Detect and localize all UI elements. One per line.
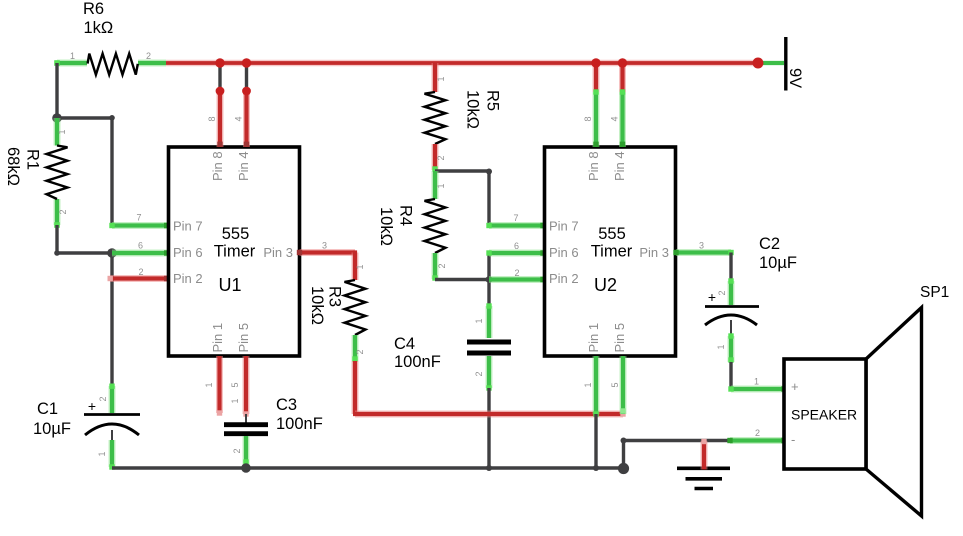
svg-text:SP1: SP1 <box>920 284 949 301</box>
resistor R3 10k <box>308 280 366 362</box>
svg-text:1: 1 <box>204 382 214 387</box>
svg-text:R3: R3 <box>326 286 344 307</box>
svg-text:1: 1 <box>70 51 75 61</box>
svg-text:C2: C2 <box>759 235 780 253</box>
wire: pin6 node vertical <box>487 253 490 280</box>
op IC U1 555 <box>169 147 300 356</box>
wire: ground rail up and right to speaker minus <box>621 438 731 469</box>
wire: C4 down to ground rail <box>487 388 490 468</box>
wire: R6 pin1 down to node <box>55 63 58 118</box>
svg-text:1: 1 <box>97 451 107 456</box>
wire: U2 pin6 green <box>486 241 545 256</box>
wire: U2 pin2 green <box>489 268 546 282</box>
svg-text:Timer: Timer <box>214 243 256 261</box>
bend dot <box>486 169 492 175</box>
svg-text:8: 8 <box>207 116 217 121</box>
svg-text:4: 4 <box>610 116 620 121</box>
bend dot <box>54 250 60 256</box>
wire: U2 pin1 to ground rail <box>583 356 599 471</box>
svg-text:100nF: 100nF <box>276 415 323 433</box>
capacitor C4 100nF <box>394 303 511 390</box>
capacitor C3 100nF <box>224 396 323 465</box>
op IC U2 555 <box>545 147 676 356</box>
wire: rail to U1 pin4 <box>234 58 252 147</box>
svg-text:1: 1 <box>436 183 446 188</box>
svg-text:Pin 3: Pin 3 <box>263 245 293 260</box>
svg-text:C4: C4 <box>394 335 415 353</box>
svg-text:R6: R6 <box>83 0 104 18</box>
svg-text:Pin 5: Pin 5 <box>236 323 251 353</box>
svg-text:Pin 2: Pin 2 <box>549 271 579 286</box>
battery 9V <box>762 37 804 91</box>
wire: U1 pin1 red stub <box>204 356 222 416</box>
svg-text:1: 1 <box>355 264 365 269</box>
svg-text:1: 1 <box>436 76 446 81</box>
svg-text:2: 2 <box>355 349 365 354</box>
svg-text:10kΩ: 10kΩ <box>377 207 395 246</box>
speaker SP1 <box>784 284 949 516</box>
svg-text:+: + <box>88 398 96 414</box>
svg-text:10kΩ: 10kΩ <box>464 90 482 129</box>
svg-text:3: 3 <box>699 241 704 251</box>
wire: U1 pin5 red to C3 <box>230 356 249 417</box>
svg-text:1kΩ: 1kΩ <box>84 19 114 37</box>
bend dot <box>109 115 115 121</box>
wire: corner down to U1 pin7 <box>110 118 113 226</box>
wire: green to speaker minus <box>727 428 786 443</box>
svg-text:7: 7 <box>514 213 519 223</box>
svg-text:Pin 1: Pin 1 <box>210 323 225 353</box>
wire: U1 pin6 green <box>112 241 169 256</box>
svg-text:2: 2 <box>717 290 727 295</box>
resistor R5 10k <box>425 63 502 172</box>
svg-text:Pin 3: Pin 3 <box>639 245 669 260</box>
svg-text:U1: U1 <box>218 275 241 295</box>
wire: 9V power rail <box>166 60 758 67</box>
capacitor C1 10uF <box>33 384 140 470</box>
wire: R3 to U2 pin5 red <box>353 361 626 417</box>
resistor R1 68k <box>4 118 68 228</box>
wire: rail to U2 pin8 <box>583 58 601 147</box>
svg-text:C3: C3 <box>276 396 297 414</box>
wire: U1 pin7 green <box>109 213 169 229</box>
wire: U1 pin2 red <box>108 267 170 281</box>
svg-text:Pin 4: Pin 4 <box>612 151 627 181</box>
svg-text:Pin 6: Pin 6 <box>549 245 579 260</box>
svg-text:2: 2 <box>58 209 68 214</box>
wire: corner down to U2 pin7 <box>487 171 490 226</box>
wire: U2 pin5 green stub <box>610 356 626 414</box>
wire: rail to U1 pin8 <box>207 58 225 147</box>
svg-text:2: 2 <box>98 396 108 401</box>
svg-text:68kΩ: 68kΩ <box>4 147 22 186</box>
wire: ground rail bottom <box>112 466 624 469</box>
wire: R4 pin2 to node <box>435 278 489 281</box>
svg-text:100nF: 100nF <box>394 353 441 371</box>
svg-text:1: 1 <box>57 129 67 134</box>
bend dot C4/rail <box>486 465 492 471</box>
svg-text:Pin 8: Pin 8 <box>586 151 601 181</box>
svg-text:1: 1 <box>474 318 484 323</box>
svg-text:10µF: 10µF <box>759 254 797 272</box>
svg-text:5: 5 <box>230 382 240 387</box>
svg-text:2: 2 <box>515 268 520 278</box>
svg-text:555: 555 <box>222 225 250 243</box>
svg-text:R5: R5 <box>484 90 502 111</box>
wire: R5/R4 node to corner <box>435 169 489 172</box>
svg-text:5: 5 <box>610 382 620 387</box>
wire: red stub to ground symbol <box>701 439 706 470</box>
node junction pin6 <box>107 248 117 258</box>
svg-text:Pin 5: Pin 5 <box>612 323 627 353</box>
junction dot battery <box>753 58 764 69</box>
svg-text:3: 3 <box>322 241 327 251</box>
svg-text:Pin 4: Pin 4 <box>236 151 251 181</box>
ground <box>677 468 730 488</box>
junction dot C3/rail <box>241 463 251 473</box>
svg-text:1: 1 <box>716 344 726 349</box>
wire: node to corner <box>57 116 112 119</box>
svg-text:2: 2 <box>437 263 447 268</box>
wire: U2 pin3 green to C2 <box>673 241 733 282</box>
svg-text:8: 8 <box>583 116 593 121</box>
svg-text:Pin 6: Pin 6 <box>173 245 203 260</box>
svg-text:U2: U2 <box>594 275 617 295</box>
svg-text:4: 4 <box>234 116 244 121</box>
svg-text:2: 2 <box>139 267 144 277</box>
wire: U1 pin3 red <box>297 241 365 281</box>
svg-text:6: 6 <box>514 241 519 251</box>
svg-text:R1: R1 <box>24 149 42 170</box>
wire: U2 pin7 green <box>486 213 545 228</box>
svg-text:1: 1 <box>583 382 593 387</box>
svg-text:Pin 2: Pin 2 <box>173 271 203 286</box>
svg-text:R4: R4 <box>397 205 415 226</box>
resistor R4 10k <box>377 171 447 281</box>
svg-text:7: 7 <box>137 213 142 223</box>
svg-text:10kΩ: 10kΩ <box>308 286 326 325</box>
svg-text:9V: 9V <box>786 68 804 88</box>
svg-text:1: 1 <box>230 398 240 403</box>
wire: R1 pin2 down <box>55 225 58 253</box>
svg-text:Pin 8: Pin 8 <box>210 151 225 181</box>
svg-text:2: 2 <box>146 51 151 61</box>
svg-text:2: 2 <box>436 155 446 160</box>
svg-text:2: 2 <box>755 428 760 438</box>
svg-text:+: + <box>791 379 799 394</box>
svg-text:Timer: Timer <box>591 243 633 261</box>
node junction U2 pin2 <box>486 276 493 283</box>
svg-text:555: 555 <box>598 225 626 243</box>
svg-text:2: 2 <box>474 371 484 376</box>
resistor R6 1k <box>54 0 166 75</box>
node junction R6/R1 <box>52 113 62 123</box>
svg-text:Pin 7: Pin 7 <box>173 219 203 234</box>
wire: rail to U2 pin4 <box>610 58 628 147</box>
svg-text:10µF: 10µF <box>33 420 71 438</box>
svg-text:1: 1 <box>754 377 759 387</box>
junction dot main ground <box>618 463 629 474</box>
wire: C2 to speaker plus <box>728 362 786 392</box>
svg-text:C1: C1 <box>37 400 58 418</box>
svg-text:6: 6 <box>138 241 143 251</box>
wire: to node at U1 pin6 <box>57 251 112 254</box>
svg-text:Pin 1: Pin 1 <box>586 323 601 353</box>
wire: node down to C1 <box>110 253 113 386</box>
svg-text:-: - <box>791 432 795 447</box>
svg-text:2: 2 <box>232 448 242 453</box>
wire: node down to C4 <box>487 280 490 307</box>
svg-text:SPEAKER: SPEAKER <box>791 407 857 423</box>
svg-text:Pin 7: Pin 7 <box>549 219 579 234</box>
capacitor C2 10uF <box>705 235 797 363</box>
svg-text:+: + <box>708 289 716 305</box>
